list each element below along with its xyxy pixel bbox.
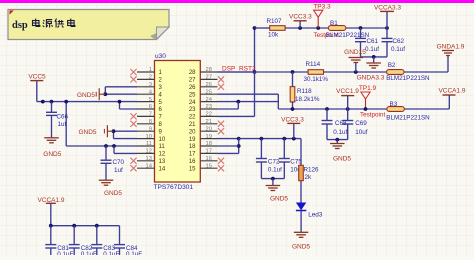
svg-text:C70: C70 [113,159,125,166]
svg-text:VCCA1.9: VCCA1.9 [438,88,465,95]
svg-text:25: 25 [206,89,212,95]
svg-text:27: 27 [206,75,212,81]
svg-text:24: 24 [206,97,213,103]
svg-text:0.1uF: 0.1uF [103,251,119,255]
svg-text:BLM21P221SN: BLM21P221SN [386,115,430,122]
svg-text:C69: C69 [355,120,367,127]
svg-text:DSP_RST2: DSP_RST2 [222,65,256,72]
svg-text:B2: B2 [388,62,396,69]
svg-text:28: 28 [189,70,196,76]
svg-text:12: 12 [159,152,166,158]
svg-text:18.2k1%: 18.2k1% [295,96,320,103]
svg-text:0.1uf: 0.1uf [365,46,379,53]
svg-text:13: 13 [159,159,166,165]
svg-text:3: 3 [149,82,152,88]
svg-text:5: 5 [149,97,152,103]
svg-text:u30: u30 [155,53,166,60]
svg-text:TP1.9: TP1.9 [359,85,377,92]
svg-text:dsp: dsp [12,20,28,31]
svg-text:17: 17 [206,149,212,155]
svg-text:12: 12 [146,149,152,155]
svg-text:0.1uf: 0.1uf [391,46,405,53]
svg-text:21: 21 [206,119,212,125]
svg-text:GND5: GND5 [333,155,351,162]
svg-text:0.1uf: 0.1uf [333,129,347,136]
svg-text:BLM21P221SN: BLM21P221SN [386,75,430,82]
svg-text:17: 17 [189,152,196,158]
svg-text:6: 6 [149,104,152,110]
svg-text:C62: C62 [393,38,405,45]
svg-text:10k: 10k [268,32,279,39]
svg-text:11: 11 [159,144,166,150]
svg-text:7: 7 [149,112,152,118]
svg-text:10uf: 10uf [355,129,368,136]
svg-text:22: 22 [206,112,212,118]
svg-text:20: 20 [206,126,212,132]
svg-text:VCC3.3: VCC3.3 [289,14,312,21]
svg-text:GND5: GND5 [78,129,96,136]
svg-text:GNDA3.3: GNDA3.3 [357,75,385,82]
svg-text:1: 1 [149,67,152,73]
svg-text:14: 14 [159,166,166,172]
svg-text:0.1uF: 0.1uF [126,251,142,255]
svg-text:23: 23 [206,104,212,110]
svg-text:1uf: 1uf [114,167,123,174]
svg-text:B3: B3 [390,101,398,108]
svg-text:Led3: Led3 [308,212,323,219]
svg-text:GND15: GND15 [344,49,366,56]
svg-text:GND5: GND5 [292,243,310,250]
svg-text:27: 27 [189,78,196,84]
svg-text:VCC3.3: VCC3.3 [281,116,304,123]
svg-text:TPS767D301: TPS767D301 [154,184,194,191]
svg-text:GNDA1.9: GNDA1.9 [437,43,465,50]
svg-text:R126: R126 [304,166,320,173]
svg-text:GND5: GND5 [77,92,95,99]
svg-text:18: 18 [189,144,196,150]
svg-text:C61: C61 [367,38,379,45]
svg-text:13: 13 [146,156,152,162]
svg-text:11: 11 [146,141,152,147]
svg-text:TP3.3: TP3.3 [313,4,331,11]
svg-text:R118: R118 [297,88,312,95]
svg-text:19: 19 [189,137,196,143]
svg-text:24: 24 [189,100,196,106]
svg-text:VCC1.9: VCC1.9 [336,88,359,95]
svg-text:10: 10 [146,134,152,140]
svg-text:21: 21 [189,122,196,128]
svg-text:22: 22 [189,115,196,121]
svg-text:Testpoint: Testpoint [360,112,385,119]
svg-text:15: 15 [206,163,212,169]
svg-text:R114: R114 [306,61,321,68]
svg-text:C68: C68 [335,120,347,127]
svg-text:14: 14 [146,163,153,169]
svg-text:26: 26 [206,82,212,88]
svg-text:C72: C72 [268,159,280,166]
svg-text:0.1uF: 0.1uF [57,251,73,255]
svg-text:8: 8 [149,119,152,125]
svg-text:28: 28 [206,67,212,73]
svg-text:2: 2 [149,75,152,81]
svg-text:23: 23 [189,107,196,113]
svg-text:GND5: GND5 [270,196,288,203]
svg-text:2k: 2k [305,174,313,181]
svg-text:VCC5: VCC5 [28,73,46,80]
svg-text:15: 15 [189,166,196,172]
svg-text:10: 10 [159,137,166,143]
svg-text:19: 19 [206,134,212,140]
svg-text:16: 16 [206,156,212,162]
svg-text:0.1uF: 0.1uF [81,251,97,255]
svg-text:18: 18 [206,141,212,147]
svg-text:26: 26 [189,85,196,91]
svg-text:1uf: 1uf [58,121,67,128]
svg-text:25: 25 [189,92,196,98]
svg-text:0.1uf: 0.1uf [268,167,282,174]
svg-text:R107: R107 [267,18,283,25]
svg-text:9: 9 [149,126,152,132]
svg-text:16: 16 [189,159,196,165]
svg-text:20: 20 [189,129,196,135]
svg-text:GND5: GND5 [43,151,61,158]
svg-text:B1: B1 [330,20,338,27]
svg-text:30.1k1%: 30.1k1% [304,76,329,83]
svg-text:VCCA3.3: VCCA3.3 [374,5,401,12]
svg-text:GND5: GND5 [104,190,122,197]
